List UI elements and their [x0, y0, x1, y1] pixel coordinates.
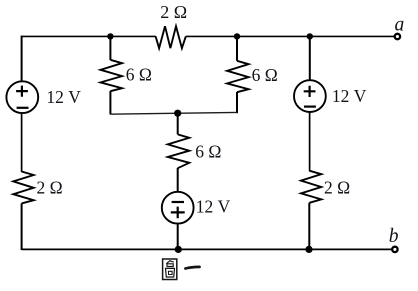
wire left-mid branch bottom lead — [109, 91, 111, 114]
resistor R4 2ohm (left, vertical) — [13, 172, 33, 204]
wire center branch top lead — [177, 113, 179, 134]
resistor R5 6ohm (center, vertical) — [168, 134, 190, 168]
svg-text:12 V: 12 V — [46, 87, 81, 107]
terminal a — [395, 34, 400, 39]
node junction dot top-right of R1 — [234, 33, 240, 39]
resistor R3 6ohm (right-middle, vertical) — [227, 61, 249, 92]
node junction dot bottom-right — [305, 246, 312, 253]
wire right-mid branch top lead — [236, 36, 238, 60]
caption figure-1 character ONE (drawn) — [185, 267, 199, 269]
wire right-mid branch bottom lead — [236, 92, 238, 113]
wire center branch bottom lead — [177, 224, 179, 250]
svg-text:12 V: 12 V — [196, 196, 231, 216]
caption figure-1 character TU (drawn) — [163, 259, 177, 280]
svg-text:6 Ω: 6 Ω — [252, 65, 278, 85]
svg-text:6 Ω: 6 Ω — [195, 142, 221, 162]
wire right branch top lead — [309, 36, 311, 80]
svg-text:2 Ω: 2 Ω — [324, 177, 350, 197]
resistor R6 2ohm (right, vertical) — [301, 171, 321, 203]
wire center branch lead to source — [177, 168, 179, 192]
wire bottom rail — [22, 248, 392, 250]
node junction dot bottom-center — [175, 246, 182, 253]
wire top rail right segment — [186, 35, 395, 37]
node junction dot middle — [174, 110, 181, 117]
resistor R2 6ohm (left-middle, vertical) — [101, 60, 123, 91]
voltage source V1 12V (left) — [6, 81, 38, 113]
wire left branch mid (source to resistor) — [21, 113, 23, 172]
svg-text:a: a — [395, 14, 405, 35]
node junction dot top-left — [107, 33, 113, 39]
wire right branch bottom lead — [308, 203, 310, 250]
voltage source V2 12V (right) — [294, 80, 326, 112]
wire left branch top (rail to source) — [21, 36, 23, 82]
terminal b — [392, 247, 397, 252]
svg-text:b: b — [389, 226, 399, 247]
wire middle horizontal — [110, 112, 237, 114]
svg-text:12 V: 12 V — [332, 86, 367, 106]
wire right branch mid lead — [309, 112, 311, 171]
node junction dot top rail right — [307, 33, 313, 39]
svg-text:6 Ω: 6 Ω — [126, 65, 152, 85]
wire top rail left segment — [22, 35, 156, 37]
resistor R1 2ohm (top, horizontal) — [156, 26, 186, 48]
wire left-mid branch top lead — [109, 36, 111, 60]
voltage source V3 12V (center, reversed) — [162, 192, 194, 224]
wire left branch bottom — [21, 203, 23, 250]
svg-text:2 Ω: 2 Ω — [160, 2, 187, 22]
svg-text:2 Ω: 2 Ω — [37, 177, 63, 197]
